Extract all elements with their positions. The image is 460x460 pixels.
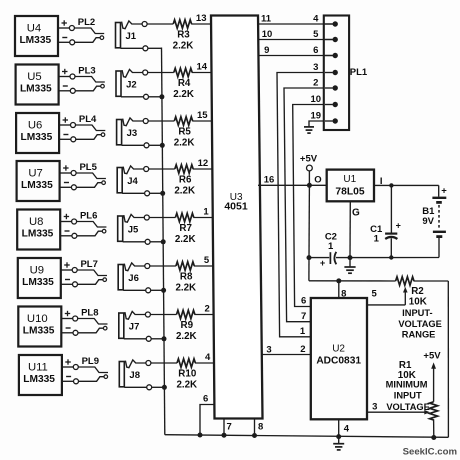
svg-text:PL4: PL4 xyxy=(79,114,97,125)
wire PL1 pin 19 to ground xyxy=(309,121,324,127)
capacitor C1 1uF xyxy=(370,188,401,258)
svg-text:13: 13 xyxy=(196,13,207,24)
svg-text:R4: R4 xyxy=(178,78,191,89)
wire R10 to U3 pin 4 xyxy=(195,362,215,364)
svg-text:4: 4 xyxy=(313,13,319,24)
svg-text:R5: R5 xyxy=(178,126,191,137)
IC U2 ADC0831 analog-to-digital converter xyxy=(311,298,367,419)
svg-text:78L05: 78L05 xyxy=(335,186,364,197)
svg-text:1: 1 xyxy=(203,207,209,218)
node − terminal of U11 xyxy=(66,376,71,378)
svg-text:10: 10 xyxy=(262,29,273,40)
junction on ground bus xyxy=(161,288,166,293)
connector J8 jack xyxy=(119,360,151,390)
svg-text:3: 3 xyxy=(372,402,377,413)
svg-text:J1: J1 xyxy=(126,31,137,42)
IC U11 LM335 temperature sensor xyxy=(19,355,62,395)
svg-text:LM335: LM335 xyxy=(23,325,55,336)
resistor R3 2.2K xyxy=(173,20,194,52)
svg-text:11: 11 xyxy=(261,13,272,24)
svg-text:VOLTAGE: VOLTAGE xyxy=(398,319,442,329)
wire U3 pin 7 stub xyxy=(224,419,232,436)
node + terminal of U8 xyxy=(64,214,69,219)
svg-text:R8: R8 xyxy=(180,271,193,282)
ground at U1 G xyxy=(344,258,355,274)
svg-text:R6: R6 xyxy=(179,174,192,185)
svg-text:8: 8 xyxy=(258,422,263,433)
svg-text:9: 9 xyxy=(264,45,269,56)
wire R4 to U3 pin 14 xyxy=(192,72,213,74)
wire ground bus vertical xyxy=(162,48,165,435)
svg-text:10: 10 xyxy=(311,94,322,105)
junction pin 7 ground xyxy=(222,433,227,438)
wire U3 pin 11 to PL1 pin 4 xyxy=(258,13,335,24)
wire U2 pin 3 to R1 wiper xyxy=(367,402,430,415)
svg-text:5: 5 xyxy=(372,289,378,300)
IC U3 4051 analog multiplexer xyxy=(211,16,263,419)
svg-text:SeekIC.com: SeekIC.com xyxy=(403,447,457,458)
svg-text:U8: U8 xyxy=(29,216,43,228)
wire supply rail left segment xyxy=(309,257,329,259)
pin 7 label of U2 xyxy=(301,311,306,322)
node + terminal of U5 xyxy=(62,69,68,74)
IC U7 LM335 temperature sensor xyxy=(17,161,60,201)
wire U3 pin 3 to U2 pin 2 xyxy=(262,344,311,355)
pin 4 label xyxy=(205,352,211,363)
svg-text:2: 2 xyxy=(300,344,305,355)
connector PL3 plug xyxy=(59,66,105,94)
wire U3 pin 8 stub xyxy=(255,419,264,436)
svg-text:LM335: LM335 xyxy=(22,277,54,288)
IC U8 LM335 temperature sensor xyxy=(17,210,60,250)
wire PL1 pin 2 to U2 pin 7 xyxy=(284,88,324,322)
svg-text:U5: U5 xyxy=(27,71,41,83)
svg-text:J3: J3 xyxy=(127,128,138,139)
node − terminal of U10 xyxy=(66,327,71,329)
svg-text:3: 3 xyxy=(313,62,318,73)
pin O label of U1 xyxy=(314,175,321,186)
svg-text:VOLTAGE: VOLTAGE xyxy=(386,402,430,412)
svg-text:G: G xyxy=(352,208,360,219)
svg-text:INPUT-: INPUT- xyxy=(402,308,432,318)
wire +5V node down to supply rail xyxy=(308,185,311,280)
label +5V at R1 xyxy=(423,350,441,361)
svg-text:PL8: PL8 xyxy=(81,308,98,319)
svg-text:7: 7 xyxy=(227,422,232,433)
wire jack sleeve to ground bus xyxy=(150,241,163,243)
junction R1 bottom on ground rail xyxy=(431,435,436,440)
svg-text:J4: J4 xyxy=(127,176,138,187)
svg-text:PL2: PL2 xyxy=(78,17,95,28)
junction C1 top xyxy=(389,183,393,187)
svg-text:PL3: PL3 xyxy=(78,66,95,77)
resistor R10 2.2K xyxy=(176,359,197,391)
svg-text:2: 2 xyxy=(313,77,318,88)
junction on ground bus xyxy=(162,336,167,341)
resistor R5 2.2K xyxy=(174,117,195,149)
svg-text:14: 14 xyxy=(197,62,208,73)
connector J1 jack xyxy=(116,21,148,51)
svg-text:U6: U6 xyxy=(28,120,42,132)
capacitor C2 1uF xyxy=(320,231,337,268)
junction on ground bus xyxy=(159,94,164,99)
potentiometer R1 10K xyxy=(430,402,438,438)
svg-text:2.2K: 2.2K xyxy=(175,282,196,293)
svg-text:MINIMUM: MINIMUM xyxy=(386,380,428,390)
wire J2 tip to R4 xyxy=(148,72,174,74)
svg-text:LM335: LM335 xyxy=(23,374,55,385)
pin 19 of PL1 xyxy=(311,110,338,123)
svg-text:U1: U1 xyxy=(343,174,356,185)
svg-text:5: 5 xyxy=(313,29,319,40)
svg-text:INPUT: INPUT xyxy=(394,391,422,401)
svg-text:+: + xyxy=(396,221,401,231)
ground at PL1 pin 19 xyxy=(304,127,314,133)
junction pin 6 ground xyxy=(198,433,203,438)
wire +5V arrow to R1 xyxy=(431,362,436,401)
wire U2 pin 8 stub xyxy=(339,281,347,299)
wire supply rail middle segment xyxy=(336,257,439,259)
trimmer R2 10K xyxy=(396,277,449,308)
svg-text:10K: 10K xyxy=(409,296,427,307)
svg-text:2.2K: 2.2K xyxy=(175,234,196,245)
pin 6 of PL1 xyxy=(313,45,338,58)
wire J1 tip to R3 xyxy=(147,23,173,25)
svg-text:1: 1 xyxy=(374,233,380,244)
wire J5 tip to R7 xyxy=(149,217,175,219)
wire J8 tip to R10 xyxy=(151,362,177,364)
wire jack sleeve to ground bus xyxy=(148,47,162,49)
wire PL1 pin 10 to U2 pin 6 xyxy=(293,105,324,307)
connector J2 jack xyxy=(116,69,149,99)
svg-text:1: 1 xyxy=(300,326,306,337)
junction on ground bus xyxy=(160,191,165,196)
connector J6 jack xyxy=(118,263,151,293)
wire U1 ground pin xyxy=(350,201,360,257)
wire jack sleeve to ground bus xyxy=(150,192,163,194)
wire R7 to U3 pin 1 xyxy=(193,217,213,219)
svg-text:PL6: PL6 xyxy=(80,211,97,222)
pin 2 of PL1 xyxy=(313,77,338,90)
wire jack sleeve to ground bus xyxy=(152,386,165,388)
svg-text:9V: 9V xyxy=(422,216,434,227)
wire J7 tip to R9 xyxy=(150,314,176,316)
svg-text:+: + xyxy=(320,258,325,268)
svg-text:R10: R10 xyxy=(178,368,197,379)
wire R8 to U3 pin 5 xyxy=(194,265,214,267)
svg-text:2.2K: 2.2K xyxy=(174,185,195,196)
label input voltage range xyxy=(398,308,442,340)
node − terminal of U8 xyxy=(65,230,70,232)
wire J4 tip to R6 xyxy=(149,168,175,170)
svg-text:4051: 4051 xyxy=(224,200,248,212)
svg-text:U11: U11 xyxy=(28,362,48,374)
pin 12 label xyxy=(198,158,209,169)
resistor R7 2.2K xyxy=(175,213,196,245)
svg-text:19: 19 xyxy=(311,110,322,121)
svg-text:2.2K: 2.2K xyxy=(173,40,194,51)
svg-text:PL7: PL7 xyxy=(80,259,97,270)
svg-text:LM335: LM335 xyxy=(21,132,53,143)
connector PL5 plug xyxy=(60,162,106,190)
pin 3 of PL1 xyxy=(313,62,338,75)
connector PL1 xyxy=(324,16,368,131)
svg-text:J6: J6 xyxy=(128,273,139,284)
IC U1 78L05 voltage regulator xyxy=(327,170,374,202)
svg-text:6: 6 xyxy=(313,45,318,56)
wire R6 to U3 pin 12 xyxy=(193,168,214,170)
wire U3 pin 6 to ground rail xyxy=(200,393,214,435)
wire PL1 pin 3 to U2 pin 1 xyxy=(277,73,324,337)
svg-text:I: I xyxy=(380,176,383,187)
connector J5 jack xyxy=(118,214,150,244)
svg-text:6: 6 xyxy=(203,393,208,404)
pin 1 label of U2 xyxy=(300,326,306,337)
svg-text:1: 1 xyxy=(328,241,334,252)
resistor R8 2.2K xyxy=(175,262,196,294)
connector PL6 plug xyxy=(60,211,106,239)
svg-text:12: 12 xyxy=(198,158,209,169)
svg-text:+5V: +5V xyxy=(300,153,318,164)
wire jack sleeve to ground bus xyxy=(149,96,162,98)
pin 2 label xyxy=(205,304,210,315)
svg-text:16: 16 xyxy=(264,175,275,186)
svg-text:J8: J8 xyxy=(129,370,140,381)
svg-text:RANGE: RANGE xyxy=(402,330,436,340)
connector J4 jack xyxy=(117,166,149,196)
node − terminal of U7 xyxy=(64,182,69,184)
connector PL7 plug xyxy=(61,259,107,287)
wire U2 pin 4 to ground rail xyxy=(339,419,350,436)
node − terminal of U5 xyxy=(63,85,68,87)
wire U3 pin 9 to PL1 pin 6 xyxy=(259,45,336,56)
pin 15 label xyxy=(197,110,208,121)
IC U4 LM335 temperature sensor xyxy=(15,16,58,56)
resistor R9 2.2K xyxy=(176,310,197,342)
svg-text:3: 3 xyxy=(266,344,271,355)
junction U2 pin 4 ground xyxy=(336,434,341,439)
wire bottom ground rail xyxy=(165,435,449,438)
pin 13 label xyxy=(196,13,207,24)
svg-text:PL1: PL1 xyxy=(350,67,368,78)
svg-text:J2: J2 xyxy=(126,80,137,91)
connector PL9 plug xyxy=(62,356,108,384)
pin 5 label xyxy=(204,255,210,266)
svg-text:4: 4 xyxy=(344,424,350,435)
pin 10 of PL1 xyxy=(311,94,338,107)
pin 6 label of U2 xyxy=(301,296,306,307)
pin 1 label xyxy=(203,207,209,218)
junction +5V on output wire xyxy=(307,183,312,188)
wire U3 pin 10 to PL1 pin 5 xyxy=(258,29,335,40)
IC U5 LM335 temperature sensor xyxy=(16,65,59,105)
svg-text:ADC0831: ADC0831 xyxy=(316,355,361,366)
svg-text:LM335: LM335 xyxy=(21,180,53,191)
svg-text:+5V: +5V xyxy=(423,350,441,361)
junction on ground bus xyxy=(160,143,165,148)
svg-text:PL5: PL5 xyxy=(79,162,97,173)
svg-text:R7: R7 xyxy=(179,223,192,234)
svg-text:6: 6 xyxy=(301,296,306,307)
resistor R4 2.2K xyxy=(173,68,194,100)
svg-text:5: 5 xyxy=(204,255,210,266)
svg-text:O: O xyxy=(314,175,321,186)
connector J7 jack xyxy=(119,311,151,341)
svg-text:PL9: PL9 xyxy=(82,356,99,367)
svg-text:R9: R9 xyxy=(181,320,194,331)
wire U3 pin 16 to U1 output xyxy=(258,175,327,186)
pin 4 of PL1 xyxy=(313,13,338,26)
svg-text:+: + xyxy=(441,185,447,196)
IC U10 LM335 temperature sensor xyxy=(18,307,61,347)
node +5V supply xyxy=(300,153,318,185)
wire U1 input to battery xyxy=(374,176,439,187)
wire J6 tip to R8 xyxy=(150,265,176,267)
junction supply rail xyxy=(307,255,312,260)
svg-text:2: 2 xyxy=(205,304,210,315)
svg-text:4: 4 xyxy=(205,352,211,363)
connector PL8 plug xyxy=(61,308,107,336)
junction on ground bus xyxy=(161,239,166,244)
junction U2 pin 8 supply xyxy=(336,278,341,283)
node − terminal of U9 xyxy=(65,279,70,281)
node + terminal of U9 xyxy=(64,262,70,267)
wire jack sleeve to ground bus xyxy=(151,289,164,291)
svg-text:U4: U4 xyxy=(27,23,41,35)
svg-text:U2: U2 xyxy=(332,343,345,354)
junction on ground bus xyxy=(162,385,167,390)
IC U6 LM335 temperature sensor xyxy=(16,113,59,153)
wire U2 pin 5 to R2 wiper xyxy=(367,289,405,305)
wire jack sleeve to ground bus xyxy=(149,144,162,146)
wire R9 to U3 pin 2 xyxy=(195,314,215,316)
svg-text:U9: U9 xyxy=(30,265,44,277)
wire right supply rail down xyxy=(447,281,449,437)
label R1 10K minimum input voltage xyxy=(386,360,430,412)
wire R5 to U3 pin 15 xyxy=(192,120,213,122)
svg-text:2.2K: 2.2K xyxy=(176,331,197,342)
svg-text:LM335: LM335 xyxy=(19,35,51,46)
svg-text:J5: J5 xyxy=(128,225,139,236)
svg-text:7: 7 xyxy=(301,311,306,322)
pin 5 of PL1 xyxy=(313,29,338,42)
svg-text:R3: R3 xyxy=(177,29,190,40)
wire J3 tip to R5 xyxy=(148,120,174,122)
connector PL4 plug xyxy=(59,114,105,142)
watermark SeekIC.com xyxy=(403,447,457,458)
svg-text:15: 15 xyxy=(197,110,208,121)
svg-text:U10: U10 xyxy=(27,313,48,325)
node + terminal of U11 xyxy=(65,359,71,364)
connector J3 jack xyxy=(117,118,149,148)
junction C1 bottom xyxy=(389,255,393,259)
IC U9 LM335 temperature sensor xyxy=(18,258,61,298)
svg-text:2.2K: 2.2K xyxy=(174,137,195,148)
node − terminal of U6 xyxy=(63,134,68,136)
wire jack sleeve to ground bus xyxy=(151,338,164,340)
node + terminal of U6 xyxy=(63,117,68,122)
node − terminal of U4 xyxy=(62,37,67,39)
resistor R6 2.2K xyxy=(174,165,195,197)
junction pin 8 ground xyxy=(252,433,257,438)
ground at U2 pin 4 xyxy=(333,437,344,450)
wire +5V rail to R2 xyxy=(309,280,396,282)
pin 14 label xyxy=(197,62,208,73)
node + terminal of U10 xyxy=(65,311,70,316)
svg-text:U7: U7 xyxy=(28,168,42,180)
svg-text:2.2K: 2.2K xyxy=(176,379,197,390)
svg-text:2.2K: 2.2K xyxy=(173,89,194,100)
svg-text:LM335: LM335 xyxy=(22,228,54,239)
svg-text:J7: J7 xyxy=(129,322,140,333)
wire R3 to U3 pin 13 xyxy=(191,23,212,25)
svg-text:LM335: LM335 xyxy=(20,83,52,94)
node + terminal of U7 xyxy=(63,165,69,170)
junction U1 ground on rail xyxy=(348,255,353,260)
node + terminal of U4 xyxy=(62,20,67,25)
connector PL2 plug xyxy=(58,17,104,45)
battery B1 9V xyxy=(422,185,447,257)
